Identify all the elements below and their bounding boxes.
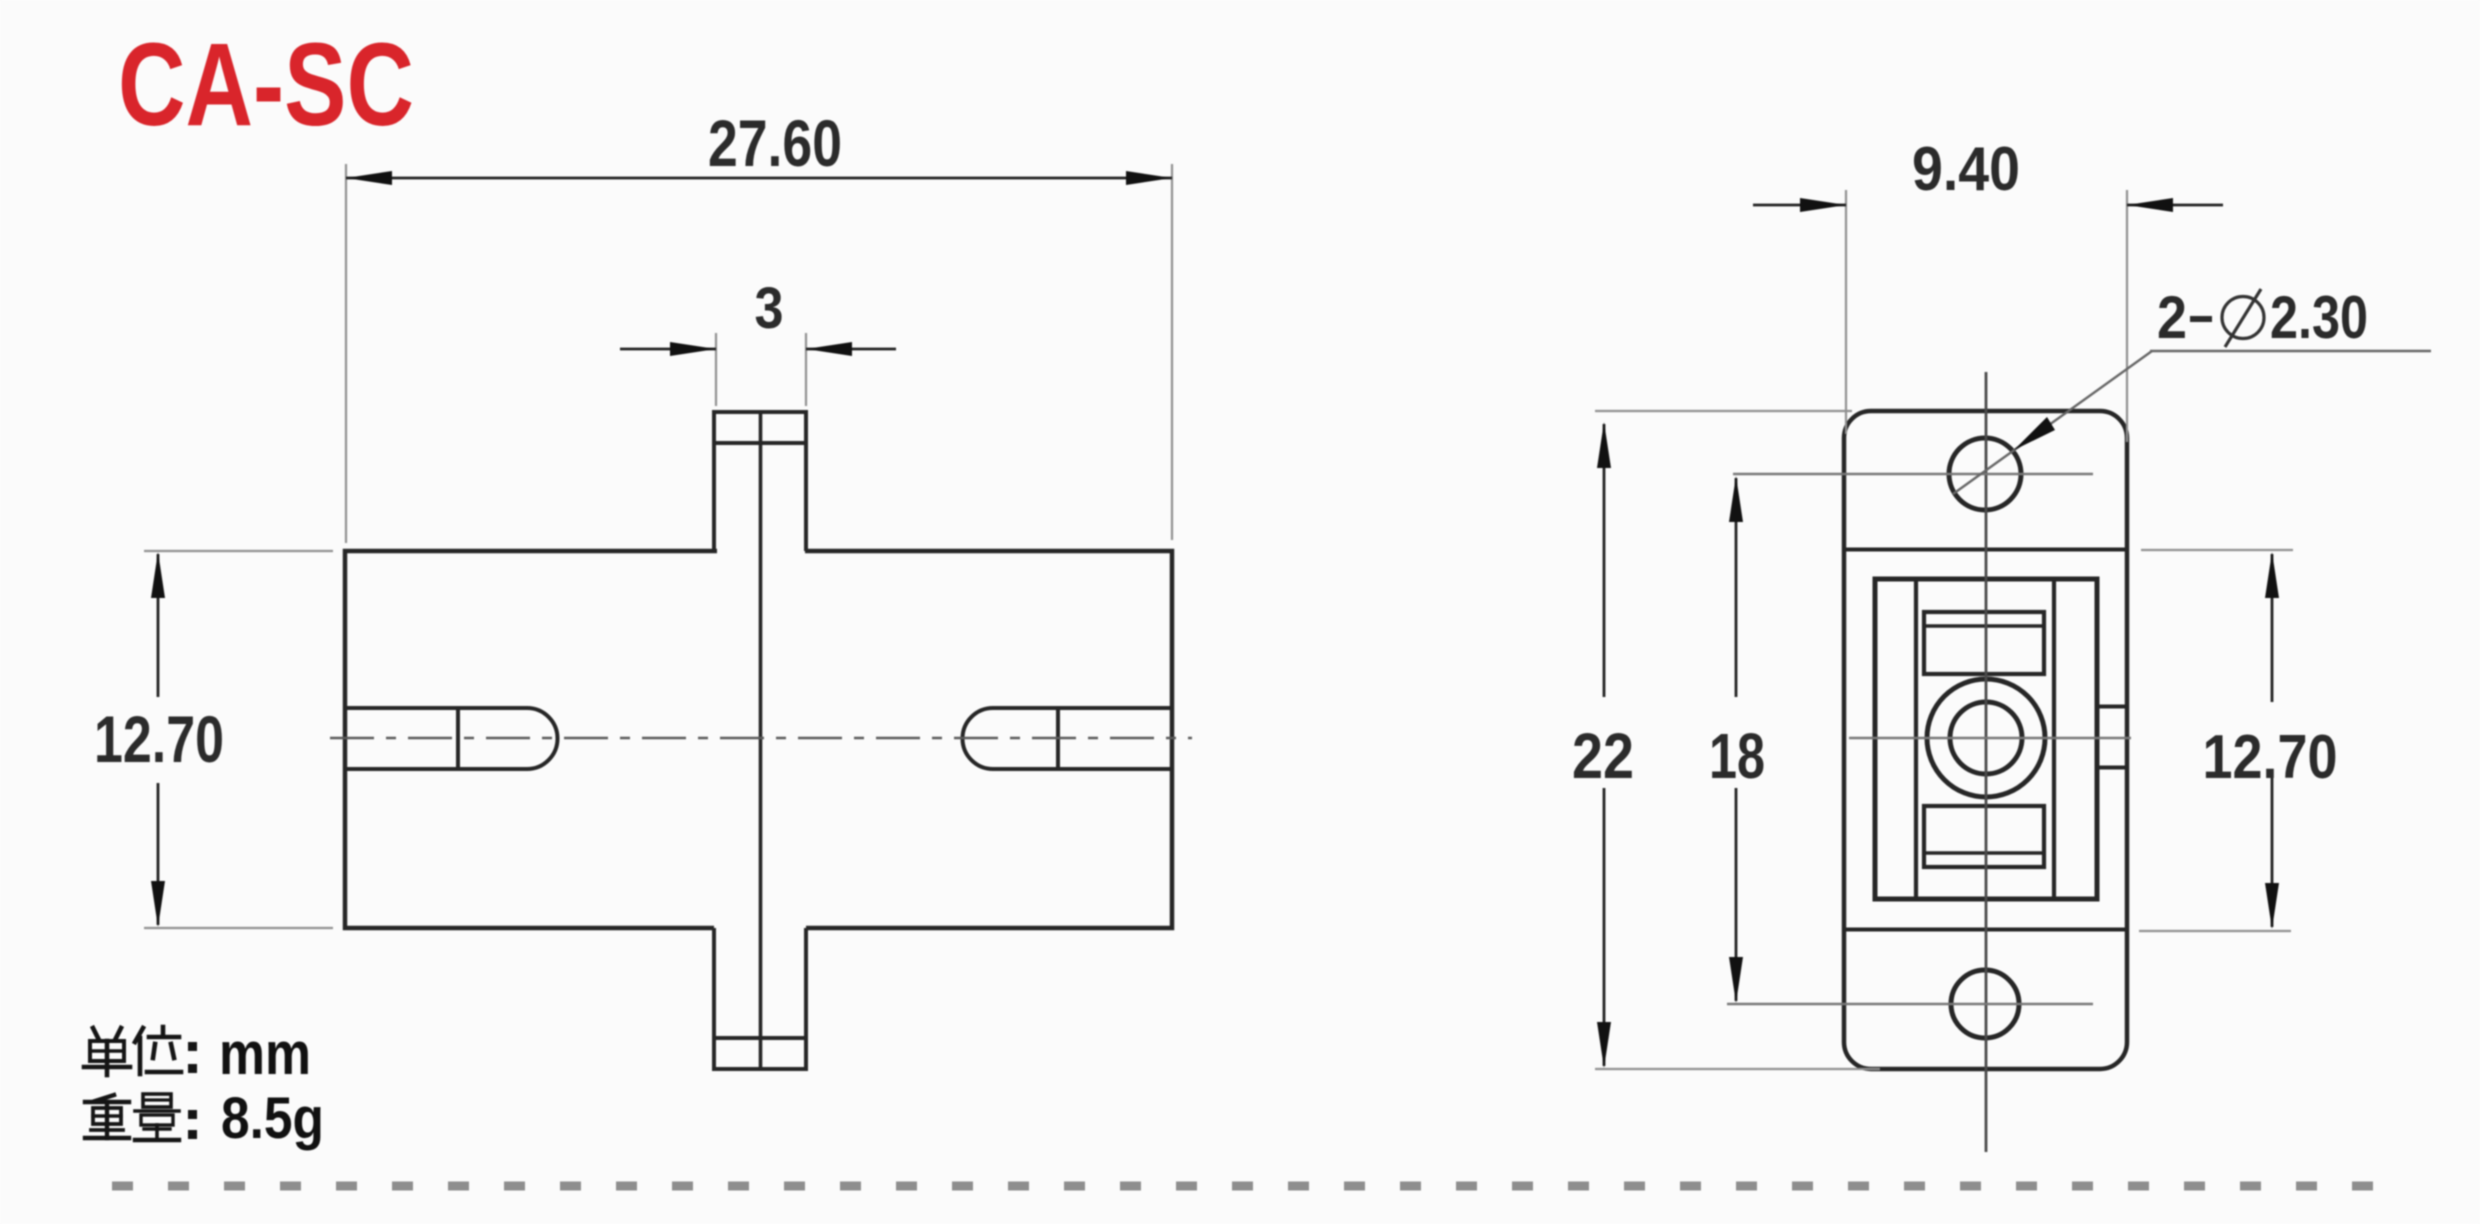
bottom flange tab [714, 928, 806, 1069]
svg-text:22: 22 [1572, 720, 1634, 792]
top flange tab [714, 412, 806, 551]
dim 12.70 left line [157, 554, 160, 925]
fullwidth colon line1 [188, 1042, 197, 1051]
plate horizontal lines [1844, 550, 2127, 930]
svg-text:2.30: 2.30 [2270, 284, 2368, 351]
svg-text:12.70: 12.70 [2203, 723, 2338, 792]
dim 22 extension lines [1595, 411, 1880, 1069]
svg-text:3: 3 [755, 276, 784, 341]
right view horizontal centerline [1849, 737, 2131, 740]
svg-text:8.5g: 8.5g [221, 1086, 324, 1151]
ferrule inner circle [1950, 702, 2022, 774]
dim 12.70 left arrows [151, 552, 165, 598]
right side key tab [2097, 707, 2127, 768]
label diameter symbol [2222, 297, 2264, 339]
dim 27.60 extension lines [346, 164, 1172, 543]
dim 9.40 arrows [1800, 198, 1846, 212]
dim 22 arrows [1597, 422, 1611, 468]
right view plate [1844, 411, 2127, 1069]
dim 9.40 extension lines [1846, 190, 2127, 442]
bottom hole horizontal centerline [1727, 1003, 2093, 1005]
SC housing inner verticals [1916, 579, 2054, 899]
dim 18 arrows [1729, 476, 1743, 522]
char 量 [143, 1094, 171, 1107]
vertical centerline right view [1985, 372, 1988, 1152]
dim 27.60 line [346, 177, 1172, 180]
char 位 [135, 1028, 143, 1042]
char 重 [95, 1095, 114, 1101]
svg-text:18: 18 [1709, 720, 1765, 792]
dim 12.70 right arrows [2265, 552, 2279, 598]
dim 12.70 right extension lines [2139, 550, 2293, 931]
bottom mounting hole [1951, 970, 2019, 1038]
char 单 [93, 1028, 99, 1040]
top hole horizontal centerline [1733, 473, 2093, 475]
dim 27.60 arrows [346, 171, 392, 185]
center parting line [759, 412, 763, 1069]
note line2: 重量：8.5g [85, 1094, 179, 1140]
label leader line [1953, 351, 2152, 494]
fullwidth colon line2 [188, 1110, 197, 1119]
svg-text:CA-SC: CA-SC [118, 19, 414, 151]
dim 12.70 right line [2271, 554, 2274, 927]
svg-text:mm: mm [219, 1020, 311, 1087]
svg-text:27.60: 27.60 [708, 106, 842, 180]
dim 3 lines [620, 348, 896, 351]
left keyway [345, 708, 558, 769]
left view horizontal centerline [330, 737, 1192, 740]
dim 12.70 left extension lines [144, 551, 333, 928]
SC housing outer rect [1875, 579, 2097, 899]
dim 3 extension lines [716, 333, 806, 406]
svg-text:2: 2 [2157, 284, 2187, 351]
label hyphen [2190, 316, 2212, 322]
dim 18 line [1735, 478, 1738, 1001]
note line1: 单位：mm [84, 1027, 181, 1075]
bottom dashed separator [112, 1182, 2374, 1191]
label leader arrow [2014, 417, 2055, 450]
dim 9.40 lines [1753, 204, 2223, 207]
dim 22 line [1603, 424, 1606, 1066]
label 2-dia2.30 underline [2150, 350, 2431, 352]
bottom latch window [1924, 806, 2044, 867]
left view body outline [345, 551, 1172, 928]
svg-text:12.70: 12.70 [94, 702, 224, 776]
top mounting hole [1949, 438, 2021, 510]
right keyway [963, 708, 1173, 769]
ferrule outer circle [1927, 679, 2045, 797]
dim 3 arrows [670, 342, 716, 356]
svg-text:9.40: 9.40 [1912, 135, 2020, 204]
top latch window [1924, 612, 2044, 674]
